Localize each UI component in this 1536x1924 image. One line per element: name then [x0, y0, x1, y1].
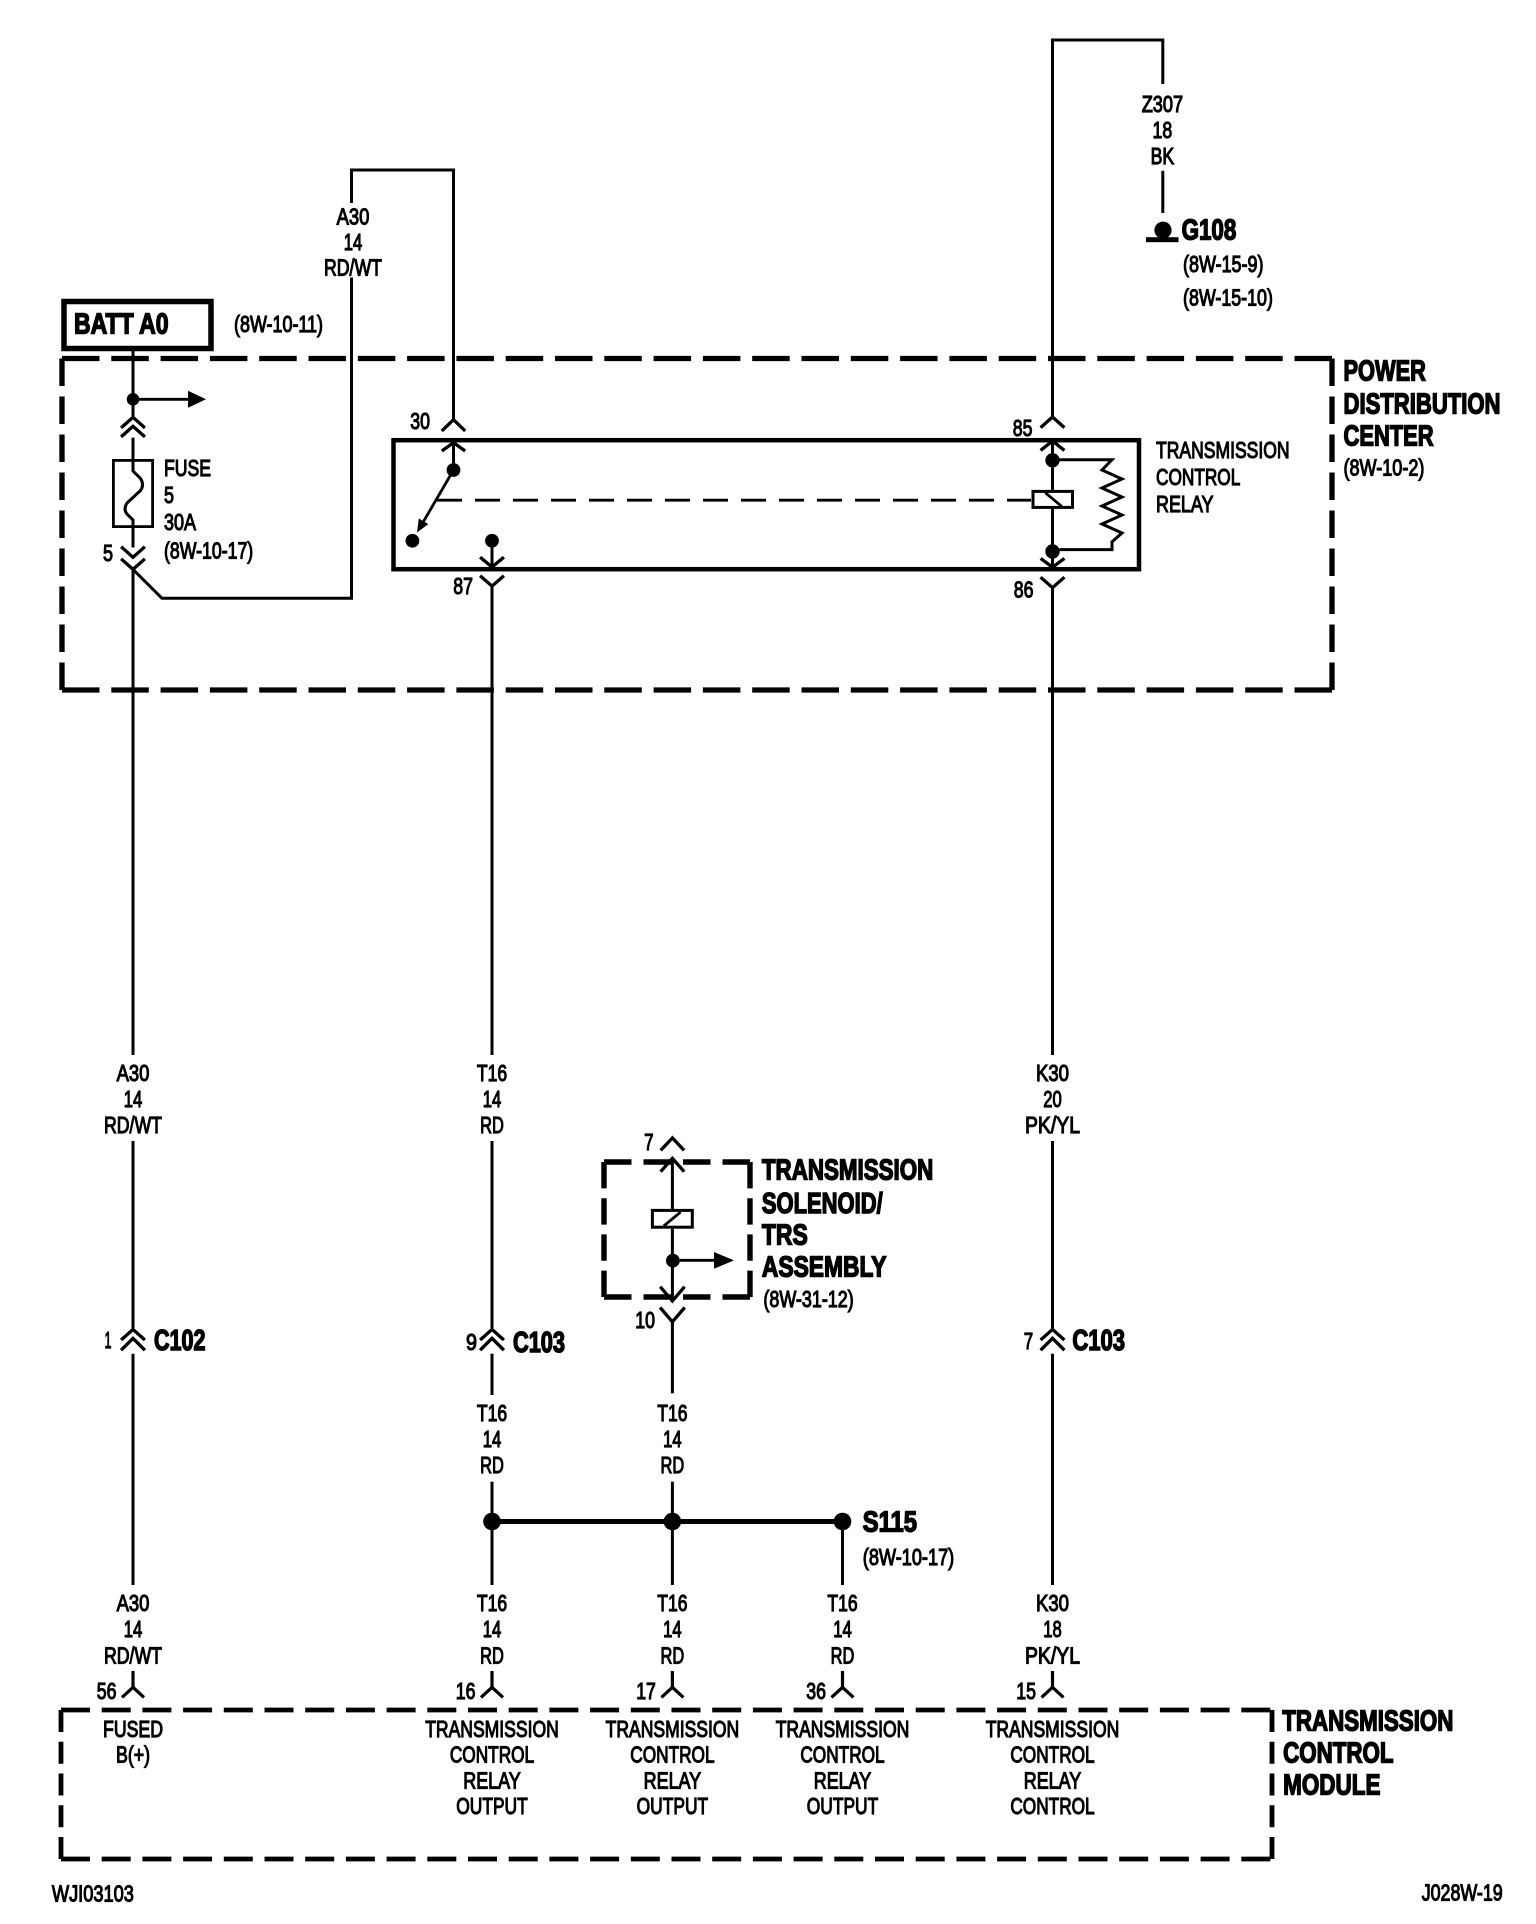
label T16 14 RD (col D row3) [827, 1590, 857, 1669]
svg-text:85: 85 [1013, 415, 1033, 441]
wire col C to splice [671, 1482, 674, 1516]
pin 15 connector [1016, 1671, 1063, 1704]
svg-text:T16: T16 [657, 1400, 687, 1426]
wire K30 relay control run [1051, 588, 1054, 1055]
wire chevron to fuse [132, 438, 135, 459]
svg-text:CONTROL: CONTROL [630, 1742, 714, 1768]
svg-text:CENTER: CENTER [1344, 421, 1434, 453]
relay common contact node [447, 463, 461, 477]
svg-text:TRANSMISSION: TRANSMISSION [1282, 1705, 1453, 1737]
svg-text:POWER: POWER [1344, 356, 1426, 388]
svg-text:56: 56 [97, 1678, 117, 1704]
transmission control module dashed box [61, 1710, 1272, 1859]
svg-text:K30: K30 [1036, 1590, 1069, 1616]
svg-text:14: 14 [124, 1086, 143, 1112]
svg-text:RELAY: RELAY [1156, 491, 1214, 517]
svg-text:TRS: TRS [762, 1220, 808, 1252]
svg-text:A30: A30 [117, 1060, 150, 1086]
relay switch arm [417, 470, 454, 533]
svg-text:(8W-15-9): (8W-15-9) [1183, 251, 1264, 277]
svg-text:CONTROL: CONTROL [450, 1742, 534, 1768]
label TRANSMISSION CONTROL RELAY OUTPUT [425, 1716, 559, 1819]
svg-text:(8W-15-10): (8W-15-10) [1183, 284, 1273, 310]
wire TRS pin 10 down [671, 1322, 674, 1394]
connector C103 pin 7 [1024, 1325, 1125, 1357]
svg-text:5: 5 [103, 540, 113, 566]
svg-text:OUTPUT: OUTPUT [456, 1793, 528, 1819]
fuse F5 30A [113, 459, 152, 532]
svg-text:K30: K30 [1036, 1060, 1069, 1086]
svg-text:BK: BK [1151, 143, 1175, 169]
svg-text:S115: S115 [863, 1507, 917, 1539]
pin 17 connector [636, 1671, 683, 1704]
splice node col B [483, 1513, 501, 1531]
svg-text:G108: G108 [1182, 215, 1237, 247]
label A30 14 RD/WT (row3) [104, 1590, 162, 1669]
relay coil [1033, 468, 1073, 545]
svg-text:14: 14 [833, 1616, 852, 1642]
svg-text:CONTROL: CONTROL [1156, 464, 1240, 490]
pin 7 connector chevrons [661, 1138, 685, 1209]
pin 86 connector chevrons [1041, 552, 1065, 588]
wire to C103 pin 7 [1051, 1141, 1054, 1329]
svg-text:RD: RD [480, 1452, 504, 1478]
svg-text:PK/YL: PK/YL [1025, 1643, 1080, 1669]
label TRANSMISSION CONTROL RELAY OUTPUT [776, 1716, 910, 1819]
svg-text:CONTROL: CONTROL [1283, 1738, 1393, 1770]
svg-text:RELAY: RELAY [814, 1767, 872, 1793]
svg-text:OUTPUT: OUTPUT [807, 1793, 879, 1819]
svg-text:TRANSMISSION: TRANSMISSION [986, 1716, 1120, 1742]
svg-text:TRANSMISSION: TRANSMISSION [762, 1155, 933, 1187]
svg-text:RELAY: RELAY [644, 1767, 702, 1793]
relay contact 87a node [406, 534, 420, 548]
label TRANSMISSION CONTROL RELAY OUTPUT [606, 1716, 740, 1819]
svg-text:RD/WT: RD/WT [324, 254, 382, 280]
svg-text:RD: RD [480, 1112, 504, 1138]
wire to C103 pin 9 [491, 1141, 494, 1329]
svg-text:15: 15 [1016, 1678, 1036, 1704]
svg-text:TRANSMISSION: TRANSMISSION [776, 1716, 910, 1742]
connector chevrons below fuse [121, 547, 145, 570]
svg-text:FUSE: FUSE [164, 455, 211, 481]
svg-text:10: 10 [635, 1307, 655, 1333]
svg-text:7: 7 [644, 1129, 653, 1155]
wire to C102 [132, 1141, 135, 1329]
transmission control relay box [394, 440, 1140, 569]
pin 87 contact node [485, 534, 499, 548]
svg-text:BATT A0: BATT A0 [74, 308, 169, 340]
svg-text:CONTROL: CONTROL [800, 1742, 884, 1768]
label FUSED B(+) [103, 1716, 163, 1768]
svg-text:FUSED: FUSED [103, 1716, 163, 1742]
svg-text:TRANSMISSION: TRANSMISSION [1156, 437, 1290, 463]
svg-text:(8W-10-17): (8W-10-17) [164, 538, 253, 564]
svg-text:SOLENOID/: SOLENOID/ [762, 1188, 883, 1220]
solenoid coil [652, 1210, 692, 1254]
wire splice to col B row3 [491, 1526, 494, 1585]
wire BATT A0 to fuse [132, 351, 135, 417]
svg-text:T16: T16 [827, 1590, 857, 1616]
wire fuse to chevrons [132, 528, 135, 548]
wire fuse output to relay pin 30 [133, 170, 454, 598]
label T16 14 RD [477, 1060, 507, 1138]
pin 56 connector [97, 1671, 144, 1704]
svg-text:C103: C103 [1072, 1325, 1125, 1357]
svg-text:A30: A30 [117, 1590, 150, 1616]
wire relay pin 85 to ground branch [1053, 40, 1163, 417]
connector C102 pin 1 [105, 1325, 206, 1357]
svg-text:T16: T16 [477, 1590, 507, 1616]
label K30 18 PK/YL (row3) [1025, 1590, 1080, 1669]
svg-text:9: 9 [466, 1329, 477, 1355]
pin 87 connector chevrons [480, 541, 504, 586]
arrow feed to other circuits [139, 391, 206, 408]
svg-text:5: 5 [164, 482, 174, 508]
label T16 14 RD (col B row3) [477, 1590, 507, 1669]
svg-text:18: 18 [1153, 117, 1173, 143]
svg-text:30: 30 [410, 408, 430, 434]
svg-text:16: 16 [456, 1678, 476, 1704]
ground G108 [1146, 222, 1179, 243]
svg-text:TRANSMISSION: TRANSMISSION [606, 1716, 740, 1742]
relay actuation dashed line [437, 499, 1031, 502]
wire K30 run to row3 label [1051, 1354, 1054, 1585]
svg-text:OUTPUT: OUTPUT [637, 1793, 709, 1819]
label T16 14 RD (col B row2) [477, 1400, 507, 1478]
svg-text:14: 14 [483, 1086, 502, 1112]
svg-text:C103: C103 [513, 1327, 565, 1359]
svg-text:T16: T16 [657, 1590, 687, 1616]
svg-text:RD: RD [661, 1643, 685, 1669]
label K30 20 PK/YL [1025, 1060, 1080, 1138]
svg-text:14: 14 [663, 1616, 682, 1642]
label FUSE 5 30A [164, 455, 253, 564]
svg-text:(8W-10-2): (8W-10-2) [1344, 454, 1425, 480]
svg-text:14: 14 [663, 1426, 682, 1452]
svg-text:A30: A30 [337, 203, 370, 229]
relay suppression resistor [1060, 460, 1123, 550]
battery feed box BATT A0 [64, 302, 211, 349]
connector C103 pin 9 [466, 1327, 565, 1359]
svg-text:J028W-19: J028W-19 [1422, 1880, 1503, 1906]
wire C103 to row2 label [491, 1354, 494, 1395]
solenoid output node [666, 1254, 680, 1268]
label POWER DISTRIBUTION CENTER [1344, 356, 1501, 481]
svg-text:PK/YL: PK/YL [1025, 1112, 1080, 1138]
svg-text:CONTROL: CONTROL [1010, 1793, 1094, 1819]
connector chevrons above fuse [121, 417, 145, 437]
svg-text:14: 14 [124, 1616, 143, 1642]
transmission solenoid/TRS assembly dashed box [604, 1162, 750, 1297]
svg-text:(8W-10-11): (8W-10-11) [234, 311, 323, 337]
svg-text:RD/WT: RD/WT [104, 1643, 162, 1669]
svg-text:20: 20 [1043, 1086, 1062, 1112]
pin 36 connector [806, 1671, 853, 1704]
wire C102 down [132, 1354, 135, 1585]
svg-text:17: 17 [636, 1678, 656, 1704]
label TRANSMISSION CONTROL MODULE [1282, 1705, 1453, 1801]
label Z307 18 BK [1142, 91, 1183, 169]
svg-text:87: 87 [453, 573, 473, 599]
label T16 14 RD (col C row2) [657, 1400, 687, 1478]
svg-text:RELAY: RELAY [463, 1767, 521, 1793]
svg-text:DISTRIBUTION: DISTRIBUTION [1344, 388, 1501, 420]
svg-text:7: 7 [1024, 1328, 1033, 1354]
svg-text:RD: RD [661, 1452, 685, 1478]
svg-text:C102: C102 [154, 1325, 206, 1357]
svg-text:CONTROL: CONTROL [1010, 1742, 1094, 1768]
pin 85 connector chevrons [1041, 417, 1065, 454]
svg-text:14: 14 [483, 1426, 502, 1452]
svg-text:18: 18 [1043, 1616, 1062, 1642]
wire col B to splice [491, 1482, 494, 1516]
power distribution center dashed box [62, 359, 1332, 691]
svg-text:(8W-10-17): (8W-10-17) [863, 1544, 954, 1570]
wire splice to col D row3 [841, 1526, 844, 1585]
label A30 14 RD/WT (top) [324, 203, 382, 280]
svg-text:RD: RD [831, 1643, 855, 1669]
svg-text:TRANSMISSION: TRANSMISSION [425, 1716, 559, 1742]
label TRANSMISSION CONTROL RELAY [1156, 437, 1290, 517]
svg-text:(8W-31-12): (8W-31-12) [763, 1286, 853, 1312]
splice node S115 [834, 1513, 852, 1531]
svg-text:T16: T16 [477, 1060, 507, 1086]
svg-text:36: 36 [806, 1678, 826, 1704]
relay coil bottom node [1045, 544, 1059, 558]
svg-text:WJI03103: WJI03103 [52, 1880, 134, 1906]
svg-text:14: 14 [344, 229, 363, 255]
label TRANSMISSION CONTROL RELAY CONTROL [986, 1716, 1120, 1819]
wire to ground [1161, 171, 1164, 213]
node battery junction [127, 393, 140, 406]
svg-text:Z307: Z307 [1142, 91, 1183, 117]
wire splice to col C row3 [671, 1526, 674, 1585]
svg-text:86: 86 [1014, 576, 1034, 602]
splice node col C [664, 1513, 682, 1531]
svg-text:RD/WT: RD/WT [104, 1112, 162, 1138]
svg-text:1: 1 [105, 1327, 112, 1353]
label A30 14 RD/WT [104, 1060, 162, 1138]
pin 10 connector chevrons [660, 1261, 685, 1322]
svg-text:30A: 30A [164, 509, 197, 535]
arrow to TRS circuits [680, 1252, 734, 1269]
label T16 14 RD (col C row3) [657, 1590, 687, 1669]
svg-text:RD: RD [480, 1643, 504, 1669]
pin 30 connector chevrons [442, 420, 465, 464]
wire T16 relay output run [491, 586, 494, 1055]
svg-text:ASSEMBLY: ASSEMBLY [762, 1252, 887, 1284]
svg-text:T16: T16 [477, 1400, 507, 1426]
relay coil top node [1045, 453, 1059, 467]
label TRANSMISSION SOLENOID/ TRS ASSEMBLY [762, 1155, 933, 1313]
svg-text:RELAY: RELAY [1024, 1767, 1082, 1793]
pin 16 connector [456, 1671, 503, 1704]
splice bus S115 [492, 1519, 843, 1524]
wire A30 fused B+ run [132, 569, 135, 1055]
svg-text:14: 14 [483, 1616, 502, 1642]
svg-text:B(+): B(+) [116, 1742, 150, 1768]
svg-text:MODULE: MODULE [1283, 1769, 1380, 1801]
